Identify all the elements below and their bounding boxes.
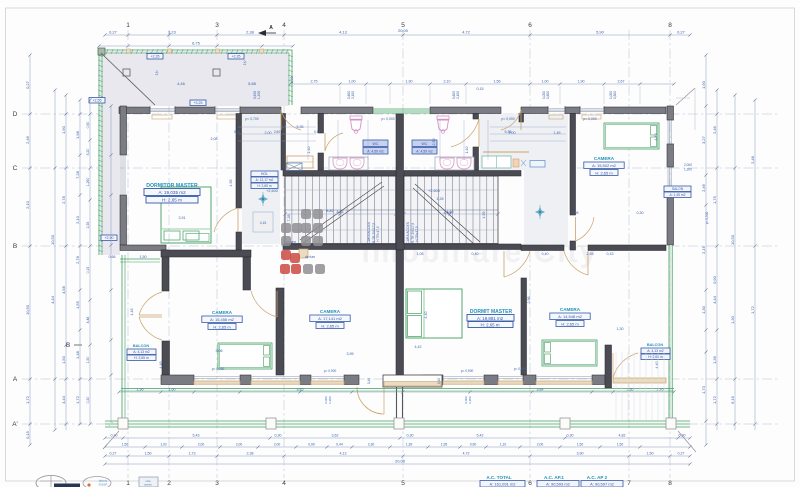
svg-text:4,15: 4,15 xyxy=(260,221,267,225)
svg-text:4,72: 4,72 xyxy=(462,30,471,35)
svg-text:1,260: 1,260 xyxy=(86,178,90,187)
svg-text:2,00: 2,00 xyxy=(236,443,243,447)
svg-text:20,00: 20,00 xyxy=(395,459,406,464)
grid axis lines (1-8, D-A') xyxy=(127,30,129,478)
small table flue xyxy=(299,249,308,258)
door camera-tr xyxy=(576,217,595,241)
door camera-1 left xyxy=(251,291,277,317)
dim chain top main xyxy=(105,34,690,36)
svg-text:p= 0,000: p= 0,000 xyxy=(381,117,394,121)
svg-text:1,30: 1,30 xyxy=(730,315,735,324)
svg-text:4,58: 4,58 xyxy=(61,285,66,294)
svg-text:2,78: 2,78 xyxy=(61,195,66,204)
svg-text:2,08: 2,08 xyxy=(211,137,218,141)
wall between cameras left xyxy=(276,288,284,375)
exterior wall right xyxy=(667,106,674,120)
svg-text:3,62: 3,62 xyxy=(332,434,339,438)
svg-text:1,50: 1,50 xyxy=(61,355,66,364)
window top wall w4 xyxy=(580,108,604,110)
bed camera bottom-left xyxy=(218,343,272,369)
svg-text:1: 1 xyxy=(126,22,130,29)
dim chain right x736 xyxy=(734,95,736,430)
svg-text:+3,25: +3,25 xyxy=(193,101,202,105)
svg-text:1,02: 1,02 xyxy=(160,443,167,447)
svg-text:WC: WC xyxy=(422,142,428,146)
svg-text:2,75: 2,75 xyxy=(311,80,318,84)
svg-text:1,95: 1,95 xyxy=(441,443,448,447)
svg-text:A: 19,881 m2: A: 19,881 m2 xyxy=(477,316,504,321)
svg-text:1,50: 1,50 xyxy=(647,452,654,456)
svg-text:8,85: 8,85 xyxy=(337,210,344,214)
svg-text:2,000: 2,000 xyxy=(684,163,692,167)
wall under wc right xyxy=(404,171,521,177)
door wc right xyxy=(451,119,479,147)
svg-text:H: 2,65 m: H: 2,65 m xyxy=(321,323,339,328)
logo stamp 3 xyxy=(139,477,158,487)
dim chain left x66 xyxy=(65,95,67,430)
kitchen fixtures right hall xyxy=(513,159,519,167)
svg-text:4,59: 4,59 xyxy=(482,212,486,219)
svg-text:0,40: 0,40 xyxy=(367,378,371,384)
window bottom b5 xyxy=(498,376,523,378)
svg-text:A: A xyxy=(13,376,18,383)
wall hall east left xyxy=(281,114,286,171)
svg-text:BALCON: BALCON xyxy=(647,343,663,347)
dashed closet box hall xyxy=(253,212,273,232)
svg-text:4: 4 xyxy=(282,480,286,487)
svg-text:5,43: 5,43 xyxy=(193,434,200,438)
svg-text:SCARA ACCES: SCARA ACCES xyxy=(367,221,371,246)
dim chain terrace xyxy=(99,45,293,47)
svg-text:4,42: 4,42 xyxy=(415,345,422,349)
terrace level label +3,25 xyxy=(190,100,206,106)
svg-text:H: 2,65 m: H: 2,65 m xyxy=(561,321,579,326)
svg-text:6,75: 6,75 xyxy=(192,41,201,46)
side yard label +2,55 xyxy=(89,98,105,104)
svg-text:SCARA ACCES: SCARA ACCES xyxy=(406,221,410,246)
wall balcony left inner xyxy=(162,250,169,291)
svg-text:0,40: 0,40 xyxy=(437,378,441,384)
svg-text:1,75: 1,75 xyxy=(712,195,717,204)
level marker star right xyxy=(539,205,541,219)
terrace fill xyxy=(100,51,289,106)
door balcony right xyxy=(613,353,638,378)
svg-text:2,98: 2,98 xyxy=(527,297,531,304)
svg-text:1,200: 1,200 xyxy=(468,396,472,404)
svg-text:0,90: 0,90 xyxy=(86,122,90,129)
door wc left xyxy=(325,133,343,151)
window left wall xyxy=(120,155,122,195)
svg-text:A: 17,141 m2: A: 17,141 m2 xyxy=(318,316,343,321)
svg-text:+2,35: +2,35 xyxy=(150,55,159,59)
svg-text:2,00: 2,00 xyxy=(537,443,544,447)
wall wc west left xyxy=(318,114,324,134)
svg-text:A: 4,13 m2: A: 4,13 m2 xyxy=(133,350,150,354)
svg-text:7,28: 7,28 xyxy=(75,170,80,179)
svg-text:0,30: 0,30 xyxy=(567,434,574,438)
svg-text:0,15: 0,15 xyxy=(25,430,30,439)
svg-text:10,50: 10,50 xyxy=(730,234,735,245)
svg-text:2,100: 2,100 xyxy=(456,91,460,99)
svg-text:3,23: 3,23 xyxy=(168,30,177,35)
svg-text:p= 0,090: p= 0,090 xyxy=(212,367,225,371)
svg-text:10,50: 10,50 xyxy=(50,234,55,245)
svg-text:0,27: 0,27 xyxy=(110,452,117,456)
toilet left xyxy=(350,116,362,119)
svg-text:0,44: 0,44 xyxy=(336,443,343,447)
svg-text:2,10: 2,10 xyxy=(25,200,30,209)
side yard fill left xyxy=(100,51,120,255)
svg-text:CAMERA: CAMERA xyxy=(594,156,615,161)
balcony right green edge xyxy=(668,245,670,421)
terrace level label +2,35 b xyxy=(228,54,244,60)
svg-text:2,00: 2,00 xyxy=(274,443,281,447)
svg-text:0,15: 0,15 xyxy=(234,130,240,134)
window bottom b6 xyxy=(536,376,592,378)
svg-text:1,55: 1,55 xyxy=(75,300,80,309)
sink left a xyxy=(333,158,347,169)
svg-text:3,91: 3,91 xyxy=(179,216,186,220)
window top wall glass-block xyxy=(373,108,430,110)
svg-text:2: 2 xyxy=(167,480,171,487)
svg-text:10,50: 10,50 xyxy=(25,304,30,315)
svg-text:0,90: 0,90 xyxy=(712,275,717,284)
svg-text:4,48: 4,48 xyxy=(130,309,134,316)
window top wall w2 xyxy=(215,108,240,110)
level marker star left xyxy=(262,192,264,206)
svg-text:1,48: 1,48 xyxy=(75,350,80,359)
terrace column 2 xyxy=(213,69,220,76)
svg-text:0,27: 0,27 xyxy=(109,30,118,35)
terrace diagonal line xyxy=(101,53,155,105)
svg-text:1,98: 1,98 xyxy=(290,77,294,84)
svg-text:2,00: 2,00 xyxy=(265,131,272,135)
svg-text:4,46: 4,46 xyxy=(444,211,451,215)
svg-text:BALCON: BALCON xyxy=(133,344,149,348)
watermark logo squares xyxy=(301,209,311,219)
wall dormitor east xyxy=(236,114,242,209)
svg-text:A: 4,59 m2: A: 4,59 m2 xyxy=(416,150,433,154)
svg-text:0,30: 0,30 xyxy=(275,434,282,438)
hall fill right apartment xyxy=(480,114,568,170)
svg-text:8,85: 8,85 xyxy=(327,209,334,213)
wall under wc left xyxy=(283,171,396,177)
svg-text:4,40: 4,40 xyxy=(654,134,658,141)
svg-text:1,72: 1,72 xyxy=(25,395,30,404)
svg-text:8: 8 xyxy=(668,22,672,29)
svg-text:expert: expert xyxy=(99,483,108,487)
svg-text:p= 0,900: p= 0,900 xyxy=(461,369,474,373)
svg-text:1,30: 1,30 xyxy=(701,305,706,314)
balcony right wall xyxy=(605,345,612,388)
label wc right xyxy=(412,140,437,147)
party wall xyxy=(396,114,404,250)
svg-text:2,10: 2,10 xyxy=(444,80,451,84)
svg-text:2,46: 2,46 xyxy=(701,183,706,192)
door entry left xyxy=(281,110,301,130)
svg-text:+2,600: +2,600 xyxy=(428,189,440,193)
window leader verticals top xyxy=(339,86,341,104)
svg-text:C: C xyxy=(13,165,18,172)
svg-text:A: 15,502 m2: A: 15,502 m2 xyxy=(592,163,617,168)
svg-text:SALON: SALON xyxy=(672,187,684,191)
svg-text:D: D xyxy=(13,111,18,118)
svg-text:4,13: 4,13 xyxy=(339,30,348,35)
svg-text:5,88: 5,88 xyxy=(248,81,257,86)
exterior wall left xyxy=(120,106,127,155)
dim chain left x30 xyxy=(29,55,31,445)
svg-text:0,15: 0,15 xyxy=(314,130,320,134)
svg-text:5,42: 5,42 xyxy=(477,434,484,438)
svg-text:1,50: 1,50 xyxy=(140,255,147,259)
svg-text:2,48: 2,48 xyxy=(750,155,755,164)
svg-text:0,66: 0,66 xyxy=(109,255,116,259)
svg-text:anexe: anexe xyxy=(144,483,152,487)
balcony right rail xyxy=(613,378,666,383)
svg-text:0,15: 0,15 xyxy=(607,252,614,256)
wardrobe closet left xyxy=(287,156,313,168)
svg-text:1,400: 1,400 xyxy=(257,91,261,99)
svg-text:1,00: 1,00 xyxy=(542,80,549,84)
terrace level label +2,35 a xyxy=(147,54,163,60)
logo stamp 1 xyxy=(36,476,66,487)
svg-text:A: 15,456 m2: A: 15,456 m2 xyxy=(210,317,235,322)
svg-text:H: 2,65 m: H: 2,65 m xyxy=(648,355,663,359)
aux dim lines wc area xyxy=(307,120,309,160)
svg-text:2,00: 2,00 xyxy=(509,131,516,135)
svg-text:1,90: 1,90 xyxy=(578,80,585,84)
window top wall w3 xyxy=(548,108,565,110)
dim chain right x756 xyxy=(754,100,756,430)
svg-text:1,36: 1,36 xyxy=(712,355,717,364)
staircase left apartment xyxy=(285,176,395,244)
svg-text:3,27: 3,27 xyxy=(701,135,706,144)
sink right b xyxy=(457,158,471,169)
svg-text:7: 7 xyxy=(627,480,631,487)
svg-text:1,45: 1,45 xyxy=(554,131,561,135)
svg-text:7,28: 7,28 xyxy=(287,215,291,222)
svg-text:p= 0,000: p= 0,000 xyxy=(583,117,596,121)
svg-text:+2,600: +2,600 xyxy=(266,189,278,193)
wall camera-tr west xyxy=(570,114,576,216)
svg-text:1,90: 1,90 xyxy=(61,125,66,134)
svg-text:4,44: 4,44 xyxy=(61,395,66,404)
svg-text:p= 0,700: p= 0,700 xyxy=(245,117,258,121)
svg-text:4,40: 4,40 xyxy=(655,362,659,369)
svg-text:A: 161,091 m2: A: 161,091 m2 xyxy=(489,482,516,487)
balcony top green ticks xyxy=(120,258,160,260)
svg-text:4,46: 4,46 xyxy=(177,81,186,86)
svg-text:2,55: 2,55 xyxy=(587,252,594,256)
dim chain bottom y456 xyxy=(105,455,690,457)
window bottom b1 xyxy=(194,376,240,378)
svg-text:A.C. TOTAL: A.C. TOTAL xyxy=(486,475,512,480)
svg-text:H: 2,65 m: H: 2,65 m xyxy=(257,184,272,188)
top-right corner diagonal xyxy=(676,88,695,105)
svg-text:1,73: 1,73 xyxy=(189,452,196,456)
svg-text:1,200: 1,200 xyxy=(684,168,692,172)
svg-text:H TR=17,5: H TR=17,5 xyxy=(415,226,419,242)
svg-text:4,40: 4,40 xyxy=(424,312,428,319)
door balcony left upper xyxy=(139,292,162,315)
label wc left xyxy=(363,140,388,147)
washbasin counter right xyxy=(435,157,474,170)
svg-text:1,40: 1,40 xyxy=(307,147,311,154)
svg-text:6: 6 xyxy=(528,480,532,487)
dim chain bottom y438 xyxy=(105,437,690,439)
dim chain bottom y447 xyxy=(105,446,690,448)
window top wall w1 xyxy=(150,108,175,110)
dim chain left x80 xyxy=(79,100,81,425)
svg-text:2,67: 2,67 xyxy=(618,80,625,84)
washbasin counter left xyxy=(329,157,368,170)
svg-text:H TR=17,5: H TR=17,5 xyxy=(376,226,380,242)
svg-text:H: 2,65 m: H: 2,65 m xyxy=(213,324,231,329)
svg-text:1,72: 1,72 xyxy=(750,305,755,314)
hall fill left apartment xyxy=(242,114,280,244)
garden door arc xyxy=(357,387,384,414)
svg-text:2,50: 2,50 xyxy=(432,139,436,146)
svg-text:2,00: 2,00 xyxy=(198,443,205,447)
svg-text:A': A' xyxy=(12,421,18,428)
terrace corner post xyxy=(98,48,105,55)
wall camera row left xyxy=(161,250,251,257)
svg-text:5,90: 5,90 xyxy=(596,30,605,35)
radiator w3 xyxy=(549,115,563,119)
svg-text:1,90: 1,90 xyxy=(406,80,413,84)
door dormitor master xyxy=(214,208,238,232)
wall camera row right xyxy=(521,245,564,251)
terrace green railing border xyxy=(99,50,292,255)
door balcony left lower xyxy=(139,317,162,340)
svg-text:2,38: 2,38 xyxy=(247,452,254,456)
svg-text:1,50: 1,50 xyxy=(617,443,624,447)
window bottom b2 xyxy=(251,376,300,378)
shower box closet xyxy=(286,163,302,171)
svg-text:CAMERA: CAMERA xyxy=(320,309,341,314)
svg-text:0,90: 0,90 xyxy=(308,443,315,447)
section marker A top xyxy=(258,30,266,36)
svg-text:2,60: 2,60 xyxy=(274,130,280,134)
svg-text:0,30: 0,30 xyxy=(86,397,90,404)
svg-text:+2,55: +2,55 xyxy=(92,99,101,103)
wall dormit-camera right xyxy=(521,278,527,375)
garden corner diag right xyxy=(678,431,696,452)
svg-text:H: 2,65 m: H: 2,65 m xyxy=(595,170,613,175)
svg-text:20,00: 20,00 xyxy=(398,28,409,33)
toilet right xyxy=(437,116,449,119)
svg-text:2,35: 2,35 xyxy=(86,222,90,229)
svg-text:0,27: 0,27 xyxy=(677,30,686,35)
dim chain right x700 xyxy=(705,55,707,445)
svg-text:H: 2,65 m: H: 2,65 m xyxy=(162,198,182,203)
svg-text:A: 90,597 m2: A: 90,597 m2 xyxy=(590,482,615,487)
dim chain bottom inner xyxy=(119,391,674,393)
svg-text:0,30: 0,30 xyxy=(637,211,644,215)
svg-text:p= 0,000: p= 0,000 xyxy=(501,117,514,121)
svg-text:A: 12,17 m2: A: 12,17 m2 xyxy=(256,178,274,182)
wall corner left jog xyxy=(120,245,166,251)
svg-text:A.C. AP.1: A.C. AP.1 xyxy=(544,475,564,480)
svg-text:H: 2,65 m: H: 2,65 m xyxy=(480,323,499,328)
svg-text:A: 90,593 m2: A: 90,593 m2 xyxy=(546,482,571,487)
svg-text:2,10: 2,10 xyxy=(75,215,80,224)
kitchen counter right hall xyxy=(483,151,529,153)
svg-text:1,50: 1,50 xyxy=(86,357,90,364)
garden posts xyxy=(118,418,128,429)
garden corner diag left xyxy=(103,431,119,449)
svg-text:1: 1 xyxy=(126,480,130,487)
balcony left green edge xyxy=(121,255,123,421)
svg-text:4: 4 xyxy=(282,22,286,29)
window bottom b4 xyxy=(443,376,484,378)
svg-text:+2,90: +2,90 xyxy=(104,236,113,240)
svg-text:4,13: 4,13 xyxy=(340,452,347,456)
radiator w2 xyxy=(217,115,237,119)
svg-text:p= 0,090: p= 0,090 xyxy=(514,367,527,371)
wall stairfoot right xyxy=(404,244,521,250)
svg-text:A.C. AP 2: A.C. AP 2 xyxy=(587,475,608,480)
svg-text:2,30: 2,30 xyxy=(368,443,375,447)
window right wall w2 xyxy=(667,167,669,190)
svg-text:1,56: 1,56 xyxy=(494,80,501,84)
svg-text:0,600: 0,600 xyxy=(546,91,550,99)
svg-text:3: 3 xyxy=(215,22,219,29)
svg-text:A: 14,548 m2: A: 14,548 m2 xyxy=(558,314,583,319)
svg-text:A: 4,59 m2: A: 4,59 m2 xyxy=(367,150,384,154)
staircase right apartment xyxy=(404,176,494,244)
svg-text:A: A xyxy=(269,25,273,31)
svg-text:1,50: 1,50 xyxy=(122,443,129,447)
wall wc east right xyxy=(473,114,479,120)
radiator w4 xyxy=(582,115,601,119)
svg-text:0,600: 0,600 xyxy=(613,91,617,99)
hall fill right apartment lower xyxy=(524,170,568,246)
svg-text:6,16: 6,16 xyxy=(730,395,735,404)
svg-text:B: B xyxy=(66,342,70,349)
svg-text:1,72: 1,72 xyxy=(75,395,80,404)
svg-text:4,48: 4,48 xyxy=(159,362,163,369)
svg-text:1,10: 1,10 xyxy=(500,443,507,447)
svg-text:0,27: 0,27 xyxy=(678,452,685,456)
svg-text:1,200: 1,200 xyxy=(328,396,332,404)
svg-text:1,50: 1,50 xyxy=(145,452,152,456)
sink left b xyxy=(350,158,364,169)
svg-text:1,28: 1,28 xyxy=(437,197,444,201)
svg-text:4,72: 4,72 xyxy=(463,452,470,456)
label hol left xyxy=(251,171,278,177)
sink right a xyxy=(440,158,454,169)
label hol right xyxy=(664,186,691,192)
svg-text:WC: WC xyxy=(373,142,379,146)
svg-text:5,20: 5,20 xyxy=(86,149,90,156)
dim total 20,00 bottom xyxy=(105,463,690,465)
svg-text:3,90: 3,90 xyxy=(577,452,584,456)
svg-text:1,00: 1,00 xyxy=(349,80,356,84)
svg-text:1,50: 1,50 xyxy=(577,443,584,447)
svg-text:A: 1,45 m2: A: 1,45 m2 xyxy=(670,193,686,197)
svg-text:H: 2,65 m: H: 2,65 m xyxy=(134,356,149,360)
svg-text:A: 19,035 m2: A: 19,035 m2 xyxy=(158,190,186,195)
dim chain left x90 xyxy=(89,100,91,425)
svg-text:0,90: 0,90 xyxy=(470,443,477,447)
door camera right xyxy=(564,251,588,275)
svg-text:3,95: 3,95 xyxy=(572,211,579,215)
svg-text:1,30: 1,30 xyxy=(617,327,624,331)
dim chain right x718 xyxy=(716,90,718,430)
svg-text:2,100: 2,100 xyxy=(351,91,355,99)
svg-text:+2,35: +2,35 xyxy=(231,55,240,59)
